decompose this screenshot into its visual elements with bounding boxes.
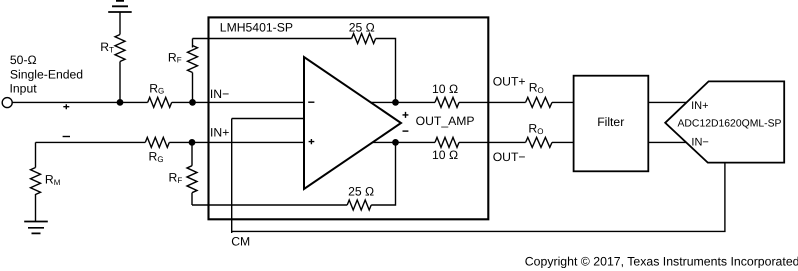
op-amp U1 bbox=[304, 57, 401, 189]
svg-text:RO: RO bbox=[528, 122, 543, 136]
svg-text:Input: Input bbox=[10, 82, 38, 96]
wire OUT+ inside bbox=[370, 101, 435, 103]
svg-text:ADC12D1620QML-SP: ADC12D1620QML-SP bbox=[678, 119, 782, 130]
node RF bottom junction bbox=[189, 139, 196, 146]
svg-text:RG: RG bbox=[149, 81, 164, 95]
svg-text:OUT+: OUT+ bbox=[493, 75, 526, 89]
Filter box bbox=[574, 76, 649, 172]
svg-text:RF: RF bbox=[168, 50, 182, 64]
resistor RO (bottom) bbox=[526, 137, 552, 147]
wire 25ohm bottom to OUT- node bbox=[371, 142, 395, 205]
resistor RF (bottom) bbox=[187, 142, 197, 205]
svg-text:RM: RM bbox=[45, 173, 61, 187]
svg-text:LMH5401-SP: LMH5401-SP bbox=[220, 20, 293, 34]
resistor RM bbox=[31, 142, 41, 221]
resistor 25ohm (top) bbox=[352, 34, 376, 44]
wire rail to op-amp IN+ bbox=[169, 141, 304, 143]
svg-text:RF: RF bbox=[169, 171, 183, 185]
resistor 10ohm (top) bbox=[435, 97, 459, 107]
svg-text:25 Ω: 25 Ω bbox=[349, 20, 375, 34]
resistor RG (top) bbox=[148, 97, 172, 107]
svg-text:IN−: IN− bbox=[210, 87, 229, 101]
ground (top, inverted) bbox=[108, 1, 132, 12]
resistor 25ohm (bottom) bbox=[347, 200, 371, 210]
label op-amp plus in bbox=[309, 139, 315, 144]
wire 25ohm to output node bbox=[376, 39, 396, 103]
wire RO to filter bbox=[552, 101, 574, 103]
svg-text:OUT−: OUT− bbox=[493, 150, 526, 164]
node RF top junction bbox=[189, 99, 196, 106]
ground (bottom) bbox=[24, 222, 48, 234]
svg-text:RO: RO bbox=[529, 81, 544, 95]
wire RT to input rail bbox=[119, 62, 121, 103]
svg-text:IN+: IN+ bbox=[691, 100, 708, 112]
node RT junction bbox=[117, 99, 124, 106]
wire CM net bbox=[232, 119, 725, 234]
input terminal bbox=[2, 98, 12, 108]
svg-text:25 Ω: 25 Ω bbox=[348, 184, 374, 198]
wire lower rail bbox=[36, 141, 146, 143]
wire filter to ADC IN- bbox=[648, 141, 686, 143]
wire 10ohm to RO bottom bbox=[459, 141, 526, 143]
resistor RT bbox=[115, 35, 125, 62]
node OUT+ bbox=[392, 99, 399, 106]
svg-text:RT: RT bbox=[100, 40, 114, 54]
label op-amp minus out bbox=[403, 130, 409, 132]
wire OUT- inside bbox=[373, 141, 436, 143]
wire CM stub to op-amp bbox=[232, 118, 304, 120]
wire rail to op-amp IN- bbox=[172, 101, 304, 103]
node OUT- bbox=[392, 139, 399, 146]
svg-text:10 Ω: 10 Ω bbox=[432, 82, 458, 96]
svg-text:Single-Ended: Single-Ended bbox=[10, 68, 83, 82]
svg-text:10 Ω: 10 Ω bbox=[432, 148, 458, 162]
svg-text:IN+: IN+ bbox=[210, 125, 229, 139]
svg-text:Copyright © 2017, Texas Instru: Copyright © 2017, Texas Instruments Inco… bbox=[525, 255, 798, 269]
wire RF bottom feedback bbox=[192, 204, 347, 206]
svg-text:CM: CM bbox=[231, 235, 250, 249]
label - polarity bbox=[63, 136, 70, 138]
wire ground to RT bbox=[119, 12, 121, 35]
svg-text:OUT_AMP: OUT_AMP bbox=[416, 114, 475, 128]
LMH5401-SP box bbox=[209, 17, 489, 219]
wire filter to ADC IN+ bbox=[648, 101, 686, 103]
label op-amp minus in bbox=[308, 101, 314, 103]
label op-amp plus out bbox=[403, 112, 409, 118]
svg-text:50-Ω: 50-Ω bbox=[10, 53, 37, 67]
label + polarity bbox=[63, 104, 69, 109]
svg-text:Filter: Filter bbox=[597, 115, 624, 129]
resistor 10ohm (bottom) bbox=[435, 137, 459, 147]
ADC shape bbox=[665, 81, 784, 162]
svg-text:IN−: IN− bbox=[691, 137, 708, 149]
resistor RG (bottom) bbox=[145, 137, 169, 147]
resistor RF (top) bbox=[188, 39, 198, 103]
wire input rail bbox=[12, 101, 148, 103]
wire RF top feedback bbox=[193, 38, 352, 40]
svg-text:RG: RG bbox=[149, 150, 164, 164]
wire 10ohm to RO top bbox=[459, 101, 526, 103]
wire RO bottom to filter bbox=[552, 141, 574, 143]
resistor RO (top) bbox=[526, 97, 552, 107]
